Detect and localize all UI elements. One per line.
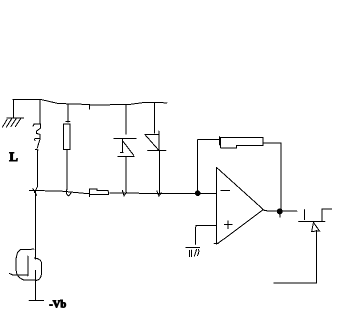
svg-text:-Vb: -Vb	[49, 299, 66, 310]
svg-text:L: L	[9, 149, 18, 164]
